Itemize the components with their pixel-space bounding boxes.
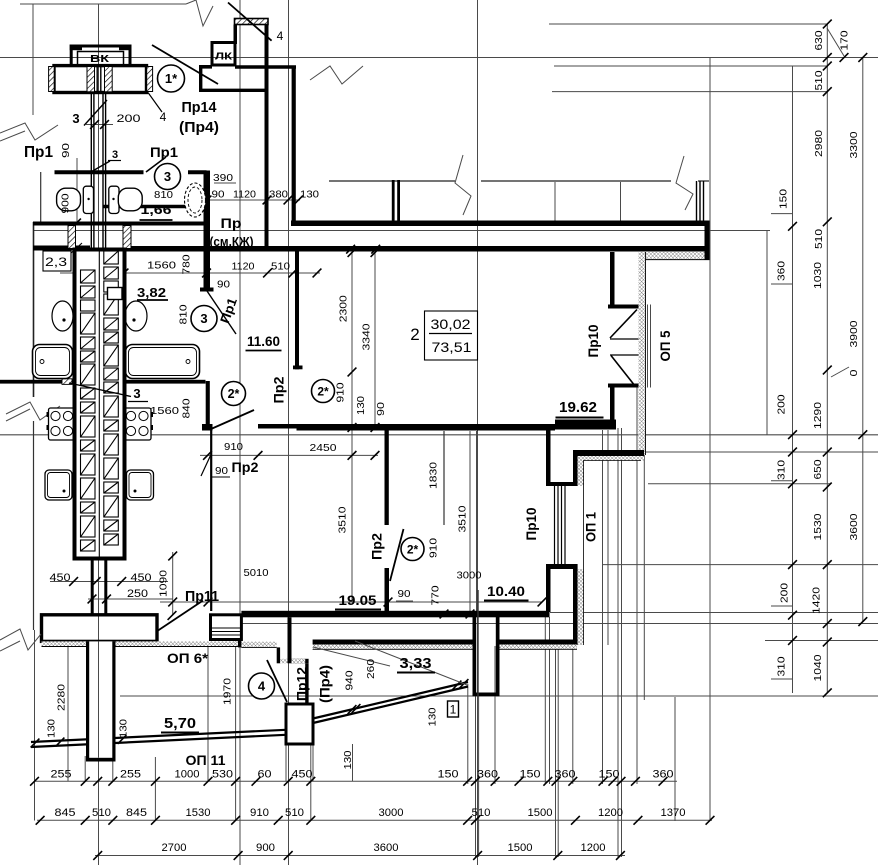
leader 3 a — [84, 100, 107, 126]
water-unit rect — [54, 66, 147, 93]
svg-text:170: 170 — [838, 30, 850, 50]
wall top thin y181 c — [698, 180, 709, 182]
svg-text:3340: 3340 — [360, 323, 372, 350]
svg-text:ЛК: ЛК — [215, 52, 233, 63]
svg-text:3: 3 — [72, 111, 79, 126]
line y612 right — [550, 612, 878, 614]
dim vert x375 (3340) — [374, 253, 376, 431]
line y66 top right — [554, 65, 827, 67]
svg-text:90: 90 — [375, 402, 387, 416]
svg-text:200: 200 — [775, 394, 787, 414]
wall x289 down — [288, 617, 292, 661]
op6 glazing line — [211, 627, 242, 629]
break z3 — [0, 123, 58, 140]
faint x767 — [766, 230, 768, 435]
svg-text:810: 810 — [177, 304, 189, 324]
hatch left end — [49, 67, 55, 92]
left wall x33 lower — [33, 421, 35, 630]
ext box edges — [285, 744, 287, 781]
svg-text:90: 90 — [212, 189, 225, 201]
op5 sash diag b — [611, 356, 634, 385]
jamb lines x696 — [696, 181, 698, 222]
circle 2* c — [401, 538, 424, 561]
dim vert x827 — [826, 24, 828, 693]
svg-text:3: 3 — [112, 149, 118, 161]
room2 bottom wall left part — [258, 424, 297, 429]
bottom wall y614 main — [241, 611, 549, 618]
pier2 right — [496, 616, 500, 696]
svg-text:630: 630 — [813, 30, 825, 50]
break z4 — [6, 402, 60, 420]
svg-text:90: 90 — [215, 465, 228, 477]
svg-text:450: 450 — [50, 572, 71, 584]
svg-text:90: 90 — [398, 588, 411, 600]
svg-text:1200: 1200 — [598, 807, 623, 819]
wall x307 down — [305, 663, 308, 705]
svg-text:150: 150 — [520, 769, 541, 781]
ext x34 bottom — [34, 630, 36, 821]
partition x386 post — [385, 568, 390, 616]
pier bar a x392 — [392, 180, 395, 222]
bottom hatch d — [241, 642, 276, 648]
leader to Pr14 — [152, 45, 218, 84]
vert x33 top — [32, 4, 34, 115]
circle 3 b — [191, 306, 217, 332]
room2 left wall x297 — [295, 252, 299, 370]
svg-text:310: 310 — [775, 460, 787, 480]
window outer x650 — [650, 305, 652, 388]
svg-text:4: 4 — [160, 110, 167, 124]
svg-text:2980: 2980 — [813, 130, 825, 157]
room2 bottom wall right thick — [555, 420, 616, 430]
hatch strip mid-left — [87, 67, 95, 92]
thin line y230 — [33, 230, 770, 232]
leader 3 c — [69, 383, 131, 397]
LK box — [212, 43, 235, 66]
svg-text:510: 510 — [92, 807, 111, 819]
wall top thin y181 b — [481, 180, 671, 182]
hatch strip mid-right — [105, 67, 113, 92]
svg-text:250: 250 — [127, 588, 148, 600]
svg-text:4: 4 — [277, 29, 284, 43]
svg-text:19.05: 19.05 — [339, 592, 377, 608]
svg-text:2300: 2300 — [337, 295, 349, 322]
svg-text:3300: 3300 — [848, 131, 860, 158]
svg-text:360: 360 — [555, 769, 576, 781]
stair wall seg y67 — [235, 65, 296, 69]
leader Pr11 — [158, 601, 203, 631]
wall x207 mid — [206, 381, 210, 424]
leader 3 b — [90, 161, 110, 173]
door leaf pr2b — [390, 529, 404, 581]
bath2 top wall b — [188, 170, 207, 174]
svg-text:2280: 2280 — [55, 684, 67, 711]
svg-text:3,33: 3,33 — [400, 655, 432, 672]
balcony rail lower-left — [31, 735, 286, 747]
dim line y273 — [60, 272, 320, 274]
party wall y381 left — [0, 380, 75, 384]
svg-text:510: 510 — [285, 807, 304, 819]
axis x710 — [709, 58, 711, 821]
svg-text:1370: 1370 — [661, 807, 686, 819]
svg-text:780: 780 — [180, 254, 192, 274]
dim line 250 — [88, 598, 173, 600]
balcony rail upper-right — [313, 682, 468, 719]
node box 1 — [448, 701, 459, 717]
break z7 — [676, 156, 693, 210]
op5 mid line a — [610, 338, 639, 340]
stair landing y90 — [199, 89, 268, 92]
svg-text:1,66: 1,66 — [141, 202, 172, 217]
dim row C line — [95, 855, 625, 857]
leader 4 label — [148, 93, 162, 113]
svg-text:510: 510 — [472, 807, 491, 819]
svg-text:1560: 1560 — [150, 405, 179, 417]
svg-text:ОП 1: ОП 1 — [583, 512, 599, 542]
svg-text:3600: 3600 — [374, 842, 399, 854]
shaft notch — [108, 288, 123, 300]
svg-text:ОП 11: ОП 11 — [186, 752, 226, 768]
svg-text:1120: 1120 — [233, 189, 256, 201]
dim line 450-450 — [50, 581, 168, 583]
line y565 right — [602, 564, 878, 566]
washbasin left — [45, 470, 72, 500]
svg-text:910: 910 — [334, 382, 346, 402]
leader Pr1 b — [146, 157, 166, 172]
dim line y24 top right — [549, 23, 827, 25]
leader 90/Pr2 — [201, 456, 211, 477]
op5 mid line b — [610, 354, 639, 356]
wall top thin y181 a — [329, 180, 455, 182]
step x278 — [277, 647, 280, 663]
svg-text:1: 1 — [450, 703, 457, 717]
stair wall x200 — [199, 66, 202, 92]
bottom wall y642 b — [500, 640, 578, 645]
svg-text:1120: 1120 — [232, 261, 255, 273]
svg-text:Пр2: Пр2 — [369, 533, 385, 560]
svg-text:130: 130 — [426, 707, 438, 726]
svg-text:10.40: 10.40 — [487, 583, 525, 599]
bottom hatch f — [500, 645, 578, 650]
svg-text:3600: 3600 — [848, 513, 860, 540]
ext x68 — [67, 646, 69, 781]
box 2,3 — [43, 251, 71, 271]
pipe line b — [100, 66, 102, 93]
circle 1* — [158, 65, 185, 92]
svg-text:Пр11: Пр11 — [185, 588, 219, 605]
svg-text:3: 3 — [200, 311, 207, 326]
svg-text:150: 150 — [599, 769, 620, 781]
left wall x33 upper — [33, 222, 35, 397]
pier bar b x397 — [397, 180, 400, 222]
dim vert x352 (2300) — [351, 253, 353, 603]
svg-text:130: 130 — [355, 396, 367, 415]
svg-text:2700: 2700 — [162, 842, 187, 854]
ext x470 room — [469, 431, 471, 616]
wall x548 upper — [546, 424, 551, 486]
hatch x580 a — [578, 459, 584, 486]
dim line 390 — [214, 182, 236, 184]
svg-text:310: 310 — [775, 656, 787, 676]
svg-text:255: 255 — [120, 769, 141, 781]
line y484 right — [648, 483, 830, 485]
circle 3 a — [155, 164, 181, 190]
room2 bottom wall — [297, 424, 556, 431]
T-pier stem — [86, 641, 116, 760]
dim line y455 — [200, 454, 378, 456]
leader 170 — [827, 28, 844, 56]
svg-text:150: 150 — [777, 189, 789, 209]
band top thick right — [291, 221, 710, 227]
op1 bottom jamb — [546, 564, 578, 569]
wall y453 — [573, 450, 644, 456]
wall cap y289 — [200, 288, 214, 292]
svg-text:73,51: 73,51 — [432, 339, 472, 355]
riser pipe left — [90, 93, 92, 251]
svg-text:2,3: 2,3 — [45, 255, 67, 269]
partition x386 upper — [385, 431, 389, 526]
op1 frame line — [561, 486, 563, 564]
svg-text:360: 360 — [477, 769, 498, 781]
hatch x580 b — [578, 569, 584, 645]
pipe line a — [96, 66, 98, 93]
svg-text:(Пр4): (Пр4) — [179, 119, 219, 136]
svg-text:11.60: 11.60 — [247, 333, 280, 349]
axis line y57 — [0, 57, 878, 59]
pier2 cap — [473, 693, 500, 697]
toilet 2 — [109, 186, 119, 213]
balcony rail upper-left — [31, 730, 286, 742]
svg-text:1830: 1830 — [427, 462, 439, 489]
svg-text:130: 130 — [45, 719, 57, 738]
svg-text:130: 130 — [117, 719, 129, 738]
svg-text:450: 450 — [292, 769, 313, 781]
door leaf pr2a — [211, 410, 254, 429]
svg-text:1290: 1290 — [812, 402, 824, 429]
svg-text:1000: 1000 — [175, 769, 200, 781]
svg-text:3000: 3000 — [379, 807, 404, 819]
ext x77 — [76, 158, 78, 225]
hatch right end — [147, 67, 153, 92]
stair wall x293 — [292, 66, 296, 222]
svg-text:650: 650 — [812, 459, 824, 479]
party wall y381 right — [125, 380, 206, 384]
svg-text:1040: 1040 — [812, 654, 824, 681]
svg-text:810: 810 — [154, 190, 173, 201]
svg-text:60: 60 — [258, 769, 272, 781]
ext x545 — [544, 617, 546, 784]
toilet 1 — [83, 186, 93, 213]
axis y623 — [240, 623, 878, 625]
svg-text:1560: 1560 — [147, 260, 176, 272]
line y92 top right — [552, 91, 827, 93]
pier2 left — [473, 616, 477, 696]
bottom hatch b — [116, 641, 158, 646]
svg-text:390: 390 — [213, 172, 233, 184]
svg-text:5010: 5010 — [244, 567, 269, 579]
bottom hatch c — [157, 641, 238, 646]
svg-text:Пр10: Пр10 — [585, 324, 601, 357]
hatch step — [280, 659, 287, 664]
dim row B line — [37, 819, 712, 821]
VK box — [71, 46, 130, 66]
pipe down b — [104, 559, 107, 616]
svg-text:845: 845 — [55, 807, 76, 819]
bath1 top wall — [55, 170, 144, 174]
svg-text:1530: 1530 — [186, 807, 211, 819]
leader 0 dim — [831, 367, 849, 377]
window op5 bottom jamb — [608, 384, 639, 388]
svg-text:3000: 3000 — [457, 570, 482, 582]
svg-text:910: 910 — [250, 807, 269, 819]
ext x468 bottom — [467, 684, 469, 784]
pipe down a — [91, 559, 94, 616]
step x240 — [238, 640, 241, 648]
svg-text:2: 2 — [410, 325, 419, 344]
svg-text:255: 255 — [51, 769, 72, 781]
svg-text:3900: 3900 — [848, 320, 860, 347]
right wall below window — [610, 388, 615, 430]
svg-text:1030: 1030 — [812, 262, 824, 289]
ext wall hatch strip right — [639, 252, 646, 455]
svg-text:1530: 1530 — [812, 513, 824, 540]
bottom wall y642 a — [313, 640, 473, 645]
bathtub left — [33, 345, 73, 379]
break z5 — [0, 629, 41, 650]
band hatch block a — [68, 226, 76, 249]
svg-text:200: 200 — [117, 113, 141, 125]
svg-text:380: 380 — [269, 189, 288, 201]
line y696 — [120, 695, 878, 697]
wall x575 seg — [573, 456, 578, 486]
svg-text:ОП 5: ОП 5 — [657, 330, 673, 361]
sink oval bath2 — [185, 183, 206, 217]
leader Pr1 door — [207, 291, 236, 334]
line y452 right — [640, 451, 878, 453]
svg-text:845: 845 — [126, 807, 147, 819]
svg-text:260: 260 — [365, 659, 377, 679]
dim row A line — [34, 780, 677, 782]
ext wall hatch top right — [641, 252, 710, 260]
bathtub right — [126, 345, 200, 379]
leader to 4 top — [228, 3, 272, 41]
break z2 — [310, 66, 363, 84]
main axis x98 — [98, 4, 100, 865]
svg-text:360: 360 — [653, 769, 674, 781]
op1 top jamb — [546, 482, 578, 486]
window box OP6 — [211, 615, 242, 640]
circle 4 — [249, 673, 275, 699]
svg-text:1500: 1500 — [528, 807, 553, 819]
svg-text:510: 510 — [813, 229, 825, 249]
dim vert x862 — [862, 58, 864, 623]
vent shaft — [75, 250, 125, 559]
bottom hatch e — [313, 645, 473, 650]
stair wall seg y66 — [199, 65, 212, 69]
ramp leader a — [355, 641, 467, 685]
band bottom thick b — [123, 246, 710, 252]
svg-text:Пр14: Пр14 — [182, 99, 218, 116]
svg-text:900: 900 — [256, 842, 275, 854]
bath oval left — [52, 301, 73, 331]
bath oval right — [125, 301, 147, 331]
op1 frame line — [564, 486, 566, 564]
svg-text:1*: 1* — [165, 71, 178, 86]
thin partition x444 — [443, 431, 445, 525]
op6 glazing line — [211, 634, 242, 636]
bottom hatch a — [42, 641, 87, 646]
svg-text:1500: 1500 — [508, 842, 533, 854]
band bottom thick a — [33, 246, 90, 251]
svg-text:ОП 6*: ОП 6* — [167, 650, 209, 666]
svg-text:2*: 2* — [407, 542, 419, 556]
main axis y435 — [0, 434, 878, 436]
wall x211 lower — [210, 431, 212, 612]
svg-text:910: 910 — [224, 441, 243, 453]
leader Pr12 — [267, 660, 287, 702]
svg-text:3: 3 — [164, 169, 171, 184]
op1 frame line — [554, 486, 556, 564]
area box room2 — [425, 311, 478, 360]
svg-text:360: 360 — [775, 261, 787, 281]
svg-text:130: 130 — [342, 750, 354, 769]
main axis x240 — [239, 0, 241, 865]
right wall above window — [610, 252, 615, 309]
wall end x707 — [705, 222, 710, 260]
partition x40 — [40, 172, 42, 222]
svg-text:1420: 1420 — [810, 587, 822, 614]
svg-text:2*: 2* — [317, 384, 329, 398]
stove left — [49, 408, 76, 440]
dim line 200 shaft — [86, 124, 113, 126]
svg-text:940: 940 — [343, 670, 355, 690]
svg-text:Пр1: Пр1 — [24, 144, 53, 161]
op1 frame line — [557, 486, 559, 564]
stove right — [124, 408, 151, 440]
svg-text:150: 150 — [438, 769, 459, 781]
svg-text:2450: 2450 — [310, 442, 337, 454]
svg-text:90: 90 — [217, 279, 230, 291]
break z6 — [455, 155, 471, 215]
svg-text:Пр12: Пр12 — [294, 667, 310, 701]
VK corner blocks — [70, 45, 82, 51]
svg-text:Пр2: Пр2 — [232, 459, 259, 475]
wall face ext x637 — [636, 385, 638, 784]
svg-text:30,02: 30,02 — [431, 316, 471, 332]
main axis x477 — [477, 0, 479, 865]
dim line y200 — [190, 199, 300, 201]
op5 sash diag a — [610, 310, 637, 339]
stair wall left stub — [234, 25, 238, 45]
dim vert x792 — [792, 66, 794, 693]
window op5 top jamb — [608, 305, 639, 309]
circle 2* b — [312, 380, 335, 403]
svg-text:90: 90 — [60, 143, 72, 158]
T-pier bar — [42, 615, 158, 642]
svg-text:Пр: Пр — [221, 215, 242, 231]
stair wall x266 — [265, 25, 269, 251]
hatch block y381 — [62, 379, 72, 385]
op6 glazing line — [211, 631, 242, 633]
svg-text:(Пр4): (Пр4) — [317, 665, 333, 703]
svg-text:0: 0 — [848, 369, 860, 376]
svg-text:910: 910 — [427, 538, 439, 558]
svg-text:130: 130 — [300, 189, 319, 201]
bath2 bottom wall — [103, 205, 204, 209]
svg-text:510: 510 — [813, 70, 825, 90]
wall x203-210 — [204, 171, 211, 292]
svg-text:900: 900 — [61, 193, 72, 214]
